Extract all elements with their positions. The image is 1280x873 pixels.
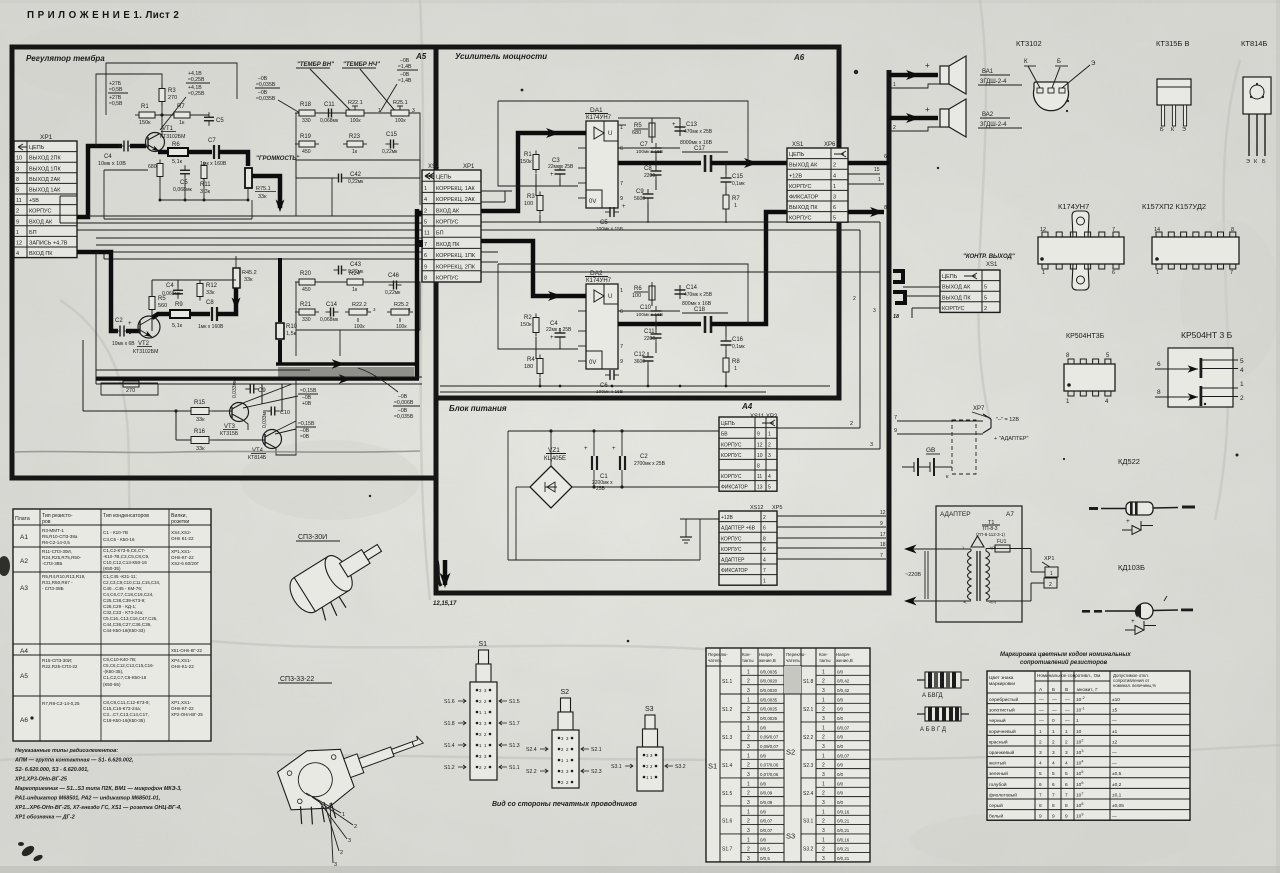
svg-text:4: 4 [1052,761,1055,767]
svg-text:0/0,07: 0/0,07 [837,725,850,730]
svg-text:золотистый: золотистый [989,707,1015,714]
svg-text:4: 4 [16,251,19,257]
wire thick input DA1 [481,133,586,211]
svg-text:ЦЕПЬ: ЦЕПЬ [789,152,805,158]
svg-text:330: 330 [302,118,311,124]
capacitor C15 0,22мк [390,140,392,149]
svg-text:R6: R6 [172,142,180,148]
svg-text:ХР1: ХР1 [40,134,53,141]
svg-text:КЦ405Е: КЦ405Е [544,456,566,462]
block A6 frame (Усилитель мощности) [436,47,839,398]
svg-text:4: 4 [833,173,836,179]
svg-text:1: 1 [734,366,737,372]
svg-text:"ТЕМБР ВН": "ТЕМБР ВН" [297,62,334,68]
svg-text:СП3-30И: СП3-30И [298,534,327,541]
svg-text:0,22мк: 0,22мк [382,149,398,155]
svg-text:Цвет знака: Цвет знака [989,675,1014,681]
svg-text:5: 5 [16,188,19,194]
svg-text:6: 6 [884,154,887,160]
svg-text:ВЫХОД 1ПК: ВЫХОД 1ПК [29,166,61,172]
wire feedback loop channel 1 [106,63,237,115]
svg-text:7: 7 [620,181,623,187]
fet 1 inside КР504НТ3Б [1155,368,1168,370]
resistor R5 560 [149,297,155,310]
svg-text:1: 1 [822,781,825,787]
capacitor C12 3600 [643,356,654,358]
svg-text:—: — [1039,698,1044,703]
svg-text:S2.1: S2.1 [591,747,602,753]
svg-text:ЗАПИСЬ +4,7В: ЗАПИСЬ +4,7В [29,241,68,247]
svg-text:33к: 33к [244,277,253,283]
svg-text:10: 10 [757,453,763,459]
svg-text:ОНп К1-22: ОНп К1-22 [171,536,194,541]
svg-text:R25.1: R25.1 [393,100,408,106]
svg-text:R11: R11 [200,182,211,188]
svg-text:≈0,15В: ≈0,15В [298,421,315,427]
svg-text:8: 8 [1065,803,1068,809]
wire thick bus XP1 to C2 ch2 [77,252,118,331]
wire A4 table to right bus [777,427,860,429]
wire thick input DA2 [481,241,586,296]
svg-text:3: 3 [747,744,750,750]
svg-text:800мк х 16В: 800мк х 16В [682,301,712,307]
resistor R8 1 [723,358,729,372]
svg-text:2: 2 [747,847,750,853]
svg-text:3: 3 [747,772,750,778]
svg-text:0/0: 0/0 [760,837,767,842]
svg-text:R25.2: R25.2 [394,302,409,308]
svg-text:R5: R5 [158,296,166,302]
svg-text:R5,R10-СП3-38а: R5,R10-СП3-38а [42,534,78,539]
svg-text:2: 2 [354,824,357,830]
svg-text:0/0,16: 0/0,16 [837,837,850,842]
wire DA2 right connections [651,285,653,306]
svg-text:2: 2 [747,763,750,769]
resistor R4 180 [537,359,543,374]
svg-text:5,1к: 5,1к [172,159,183,165]
svg-text:С25,С38,С39-К73-9;: С25,С38,С39-К73-9; [103,598,146,603]
tone network ch1 frame wire [296,113,420,160]
svg-text:S1.5: S1.5 [722,791,733,797]
svg-text:S1.2: S1.2 [444,765,455,771]
capacitor C4 10мк х 10В [123,141,125,152]
svg-text:КТ315Б В: КТ315Б В [1156,39,1189,48]
svg-text:≈1,4В: ≈1,4В [398,78,412,84]
svg-text:фиолетовый: фиолетовый [989,791,1017,798]
capacitor C5 0,068мк [180,169,190,171]
ic DA2 pins [578,295,586,297]
svg-text:X51-ОНп-КГ-22: X51-ОНп-КГ-22 [171,648,203,653]
svg-text:Усилитель мощности: Усилитель мощности [455,52,547,61]
svg-text:6: 6 [1052,782,1055,788]
wire lower left rails [83,410,191,412]
svg-text:3600: 3600 [634,359,645,365]
svg-text:150к: 150к [520,159,532,165]
svg-text:12: 12 [1040,227,1046,233]
svg-text:К174УН7: К174УН7 [586,115,612,121]
svg-text:Регулятор тембра: Регулятор тембра [26,54,105,63]
svg-text:XS1: XS1 [792,142,804,148]
svg-text:R7,R8-С2-14-0,25: R7,R8-С2-14-0,25 [42,701,80,706]
svg-text:7: 7 [1230,270,1233,276]
capacitor C7 1мк х 160В [213,145,215,159]
svg-text:470мк х 25В: 470мк х 25В [684,129,713,135]
svg-text:R15: R15 [194,400,206,406]
svg-text:R20: R20 [300,271,312,277]
svg-text:1мк х 160В: 1мк х 160В [198,324,224,330]
capacitor C14b 0,068мк [330,308,332,317]
svg-text:А1: А1 [20,534,28,541]
svg-text:0/0,42: 0/0,42 [837,679,850,684]
svg-text:ЦЕПЬ: ЦЕПЬ [29,145,45,151]
svg-text:С9: С9 [636,189,644,195]
svg-text:чатель: чатель [786,658,800,663]
svg-text:красный: красный [989,738,1008,745]
capacitor C9a 5600 [643,193,654,195]
svg-text:0,09/0,07: 0,09/0,07 [760,744,779,749]
wire VT1 collector node [161,102,163,136]
svg-text:12,15,17: 12,15,17 [433,601,457,607]
svg-text:1: 1 [747,697,750,703]
svg-text:С1 - К10-7В: С1 - К10-7В [103,530,128,535]
svg-text:1: 1 [620,288,623,294]
svg-text:С44,С36,С27,С36,С39,: С44,С36,С27,С36,С39, [103,622,152,627]
potentiometer R22.2 100к [349,309,367,315]
svg-text:1: 1 [822,697,825,703]
wire long rails [88,215,422,217]
svg-text:—: — [1039,719,1044,724]
svg-text:КОРПУС: КОРПУС [789,216,812,222]
svg-text:ХР1,ХР3-ОНп-ВГ-25: ХР1,ХР3-ОНп-ВГ-25 [14,777,68,783]
svg-text:S3: S3 [645,706,654,713]
svg-text:3ГДШ-2-4: 3ГДШ-2-4 [980,79,1007,85]
resistor R1a 150к [533,155,539,170]
wire DA1 right connections [651,122,653,143]
svg-text:ВА1: ВА1 [982,69,994,75]
svg-text:Э: Э [1182,127,1186,133]
svg-text:10: 10 [16,156,22,162]
svg-text:сопротивлений резисторов: сопротивлений резисторов [1020,659,1108,666]
svg-text:8: 8 [1157,389,1161,396]
svg-text:R4: R4 [527,357,535,363]
svg-text:АДАПТЕР: АДАПТЕР [940,511,971,518]
potentiometer R75.1 33к [245,168,252,188]
svg-text:S1.6: S1.6 [722,819,733,825]
svg-text:2: 2 [1052,739,1055,745]
resistor R18 330 [299,110,315,116]
svg-text:0/0,09: 0/0,09 [760,800,773,805]
svg-text:КОРПУС: КОРПУС [436,220,459,226]
svg-text:+: + [925,61,930,70]
svg-text:8: 8 [16,177,19,183]
svg-text:8: 8 [884,205,887,211]
svg-text:КОРПУС: КОРПУС [721,474,742,480]
svg-text:ОНп-КГ-22: ОНп-КГ-22 [171,706,194,711]
svg-text:≈0,006В: ≈0,006В [394,400,414,406]
svg-text:+: + [584,446,588,452]
capacitor C16 0,1мк [721,340,732,342]
svg-text:+: + [612,446,616,452]
svg-text:S1.7: S1.7 [509,721,520,727]
svg-text:680: 680 [632,130,641,136]
svg-text:ХР1,XS1-: ХР1,XS1- [171,700,192,705]
svg-text:0/0,21: 0/0,21 [837,828,850,833]
svg-text:—: — [1112,762,1117,767]
svg-text:1: 1 [833,184,836,190]
svg-text:желтый: желтый [989,760,1006,767]
svg-text:S3.1: S3.1 [803,819,814,825]
svg-text:Переклю-: Переклю- [708,652,728,657]
svg-text:R2: R2 [524,315,532,321]
resistor R23 1к [347,141,363,147]
svg-text:270: 270 [126,388,135,394]
svg-text:С1,С2,С7,С6-К50-16: С1,С2,С7,С6-К50-16 [103,675,147,680]
resistor R1 150к [139,112,155,118]
svg-text:2: 2 [16,209,19,215]
capacitor C6 100мк х 15В [609,370,611,380]
svg-text:150к: 150к [139,120,151,126]
svg-text:1: 1 [16,230,19,236]
svg-text:С5,С6,С12,С13,С15,С16-: С5,С6,С12,С13,С15,С16- [103,663,155,668]
svg-text:1: 1 [747,725,750,731]
svg-text:БП: БП [436,231,444,237]
svg-text:R3: R3 [527,194,535,200]
svg-text:"ТЕМБР НЧ": "ТЕМБР НЧ" [343,62,380,68]
wire right main bus vertical [874,70,889,593]
diode КД522 drawing [1089,507,1098,510]
svg-text:0/0,07: 0/0,07 [760,819,773,824]
svg-text:11: 11 [424,231,430,237]
svg-text:XS1: XS1 [428,164,440,170]
svg-text:R19: R19 [300,134,312,140]
svg-text:К174УН7: К174УН7 [1058,202,1089,211]
svg-text:Э: Э [1091,61,1096,67]
svg-text:2: 2 [747,791,750,797]
svg-text:Кон-: Кон- [742,652,751,657]
svg-text:S2.3: S2.3 [803,763,814,769]
svg-text:ВЫХОД 1АК: ВЫХОД 1АК [29,188,61,194]
svg-text:7: 7 [763,568,766,574]
svg-text:С14: С14 [686,285,698,291]
svg-text:S1.6: S1.6 [444,699,455,705]
svg-text:100к: 100к [395,118,406,124]
svg-text:С28,С29 - КД-1;: С28,С29 - КД-1; [103,604,136,609]
svg-text:Блок питания: Блок питания [449,404,507,413]
svg-text:серебристый: серебристый [989,696,1018,703]
svg-text:КОРПУС: КОРПУС [721,442,742,448]
svg-text:100мк х 15В: 100мк х 15В [636,149,663,155]
transistor VT2 КТ3102БМ [138,316,160,338]
svg-text:6: 6 [1157,361,1161,368]
svg-text:КТ315Б: КТ315Б [220,431,239,437]
svg-text:1: 1 [747,837,750,843]
svg-text:5600: 5600 [634,196,645,202]
svg-text:S3.1: S3.1 [611,764,622,770]
svg-text:ВА2: ВА2 [982,112,994,118]
svg-text:ВХОД ПК: ВХОД ПК [436,242,460,248]
capacitor C42 0,22мк [338,174,340,183]
svg-text:33к: 33к [206,290,215,296]
svg-text:22мк х 25В: 22мк х 25В [548,164,574,170]
svg-text:0,07/0,06: 0,07/0,06 [760,772,779,777]
svg-text:С40...С45 - КМ-76;: С40...С45 - КМ-76; [103,586,142,591]
resistor R3a 100 [537,196,543,211]
wire supply mid rail [572,486,719,488]
svg-text:Б: Б [1160,127,1164,133]
svg-text:4: 4 [1065,761,1068,767]
svg-text:0/0,42: 0/0,42 [837,688,850,693]
svg-text:5: 5 [1039,771,1042,777]
svg-text:10мк х 10В: 10мк х 10В [98,161,126,167]
ic DA1 pins [578,132,586,134]
svg-text:1,5к: 1,5к [286,331,297,337]
svg-text:С17: С17 [694,146,706,152]
svg-text:11: 11 [757,474,762,480]
svg-text:R31,R50,R67 -: R31,R50,R67 - [42,580,73,585]
svg-text:≈0,25В: ≈0,25В [188,77,205,83]
svg-text:0/0,09: 0/0,09 [760,791,773,796]
svg-text:0/0,0020: 0/0,0020 [760,679,778,684]
svg-text:КР504НТ 3 Б: КР504НТ 3 Б [1181,330,1233,340]
svg-text:1: 1 [734,203,737,209]
resistor R7a 1 [723,195,729,209]
wire thick R9 to C8 [190,312,210,317]
speaker BA1 [940,66,949,84]
svg-text:С7: С7 [208,138,216,144]
svg-text:ЦЕПЬ: ЦЕПЬ [436,175,452,181]
wire amp bottom rails [440,385,830,387]
svg-text:0,068мк: 0,068мк [320,317,339,323]
svg-text:3: 3 [822,828,825,834]
wire thick down arrow at supply bottom left [443,560,448,585]
capacitor C14 470мк х 25В [675,289,686,291]
svg-text:0,1мк: 0,1мк [732,181,745,187]
svg-text:КТ3102БМ: КТ3102БМ [160,134,185,140]
block A5 frame (Регулятор тембра) [12,47,436,478]
svg-text:2: 2 [822,763,825,769]
svg-text:XS12: XS12 [750,505,763,511]
speaker BA2 [940,109,949,127]
svg-text:—: — [1112,751,1117,756]
wire XS1 to right bus [848,210,884,215]
svg-text:R18: R18 [300,102,312,108]
svg-text:—: — [1052,709,1057,714]
svg-text:Кон-: Кон- [819,652,828,657]
wire thick volume to down arrow [252,176,280,208]
svg-text:0/0,5: 0/0,5 [760,856,770,861]
svg-text:КОРПУС: КОРПУС [29,209,52,215]
svg-text:5,1к: 5,1к [172,323,183,329]
svg-text:1: 1 [1156,270,1159,276]
svg-text:7: 7 [1052,792,1055,798]
svg-text:U: U [608,131,612,137]
svg-text:АДАПТЕР: АДАПТЕР [721,558,745,564]
resistor R2 150к [533,318,539,333]
svg-text:8: 8 [1231,227,1234,233]
svg-text:100к: 100к [354,324,365,330]
svg-text:S1.8: S1.8 [803,679,814,685]
wire ch2 local [151,280,153,296]
svg-text:S2- 6.620.000, S3 - 6.620.001: S2- 6.620.000, S3 - 6.620.001, [15,767,89,773]
wire thick R6 to C7 [188,150,212,155]
svg-text:S2.2: S2.2 [526,769,537,775]
svg-text:R15-СП3-30И;: R15-СП3-30И; [42,658,72,663]
svg-text:—: — [1065,698,1070,703]
resistor R16 33к [191,437,209,444]
svg-text:"ГРОМКОСТЬ": "ГРОМКОСТЬ" [256,156,299,162]
svg-text:"КОНТР. ВЫХОД": "КОНТР. ВЫХОД" [963,254,1015,260]
svg-text:ОНп-К1-22: ОНп-К1-22 [171,664,194,669]
svg-text:2: 2 [1240,395,1244,402]
svg-text:2200: 2200 [644,336,655,342]
svg-text:С1,С45 -К31-11;: С1,С45 -К31-11; [103,574,137,579]
svg-text:С2,С3,С9,С10,С11,С15,С34,: С2,С3,С9,С10,С11,С15,С34, [103,580,160,585]
resistor color band sample 2 [925,707,961,721]
svg-text:S1.5: S1.5 [509,699,520,705]
svg-text:—: — [1052,698,1057,703]
svg-text:жение,В: жение,В [759,658,776,663]
svg-text:КТ3102БМ: КТ3102БМ [133,349,158,355]
svg-text:0,07/0,06: 0,07/0,06 [760,763,779,768]
svg-text:15: 15 [874,167,880,173]
svg-text:Номинальное сопротивл., Ом: Номинальное сопротивл., Ом [1037,673,1100,678]
svg-text:≈0,25В: ≈0,25В [188,91,205,97]
svg-text:Б: Б [1057,59,1061,65]
svg-text:5: 5 [424,220,427,226]
svg-text:С5: С5 [216,118,224,124]
svg-text:-СП3-38Б: -СП3-38Б [42,561,62,566]
svg-text:XS2-6 60/20Г: XS2-6 60/20Г [171,561,200,566]
svg-text:КТ3102: КТ3102 [1016,39,1042,48]
capacitor C46 0,22мк [393,281,395,290]
wire thick C2 to VT2 [126,329,140,334]
resistor R3 270 [159,89,165,102]
svg-text:2: 2 [424,208,427,214]
resistor R24 1к [347,279,363,285]
svg-text:С15,С16-К73-24а;: С15,С16-К73-24а; [103,706,141,711]
svg-text:ВЫХОД АК: ВЫХОД АК [789,163,818,169]
capacitor C13 470мк х 25В [675,126,686,128]
svg-text:6: 6 [620,146,623,152]
color code table [987,671,1190,820]
svg-text:3ГДШ-2-4: 3ГДШ-2-4 [980,122,1007,128]
svg-text:3: 3 [747,856,750,862]
svg-text:А6: А6 [20,717,28,724]
svg-text:ВХОД АК: ВХОД АК [29,219,53,225]
svg-text:S1: S1 [479,641,488,648]
svg-text:+12В: +12В [721,515,733,521]
svg-text:470мк х 25В: 470мк х 25В [684,292,713,298]
svg-text:КТ814Б: КТ814Б [248,455,267,461]
svg-text:0/0: 0/0 [837,800,844,805]
wire supply top rail [508,430,719,432]
svg-text:18: 18 [893,314,900,320]
capacitor C5 channel1 [204,116,214,118]
svg-text:1: 1 [747,809,750,815]
svg-text:7: 7 [620,344,623,350]
svg-text:3: 3 [747,716,750,722]
svg-text:1: 1 [1039,729,1042,735]
ground symbol [685,527,687,537]
svg-text:БП: БП [29,230,37,236]
svg-text:0,068мк: 0,068мк [173,187,193,193]
resistor R12 33к [197,284,203,297]
svg-text:9: 9 [880,521,883,527]
svg-text:0/0,21: 0/0,21 [837,856,850,861]
ink smudge left edge [0,556,10,576]
svg-text:ров: ров [42,519,51,525]
svg-text:0/0,5: 0/0,5 [760,847,770,852]
